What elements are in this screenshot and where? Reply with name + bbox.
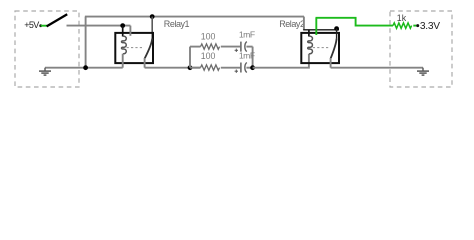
wire vertical ground link x85.6 [85,17,87,68]
svg-text:1k: 1k [397,13,407,23]
wire relay1 coil top stub [122,26,124,37]
svg-text:100: 100 [201,31,216,41]
relay1 box [115,33,153,63]
wire R3 to 3.3V terminal [413,25,416,27]
+3.3V rail terminal dot [416,24,419,27]
+5V rail terminal dot [39,24,42,27]
svg-text:Relay2: Relay2 [279,19,305,29]
junction top rail / relay1 common [150,14,155,19]
junction node L [188,65,193,70]
relay2 switch blade [331,39,337,59]
junction node rail / relay1 coil [120,23,125,28]
dashed subcircuit box right [390,11,452,87]
svg-text:1mF: 1mF [239,51,255,61]
wire relay2 common drop [336,29,338,39]
wire +5V green stub [41,25,47,27]
wire relay1 throw to node L [145,67,201,69]
wire relay1 top throw stub [129,26,131,36]
wire R2 to C2 [221,67,240,69]
ground left symbol [39,71,51,75]
wire relay2 throw to right ground [331,67,423,69]
wire C1 dropper [252,47,254,68]
ground right symbol [417,71,429,75]
wire node L to R2 [190,67,201,69]
relay2 coil L2 [308,36,313,54]
wire R1 left lead [190,46,201,48]
svg-text:+5V: +5V [24,20,39,30]
wire switch to relay1 node rail [67,25,131,27]
wire top rail drop to relay2 [303,17,305,30]
wire relay1 coil bottom stub [122,54,124,68]
ground right stub [422,68,424,71]
wire ground rail left [45,67,123,69]
wire node R to relay2 coil [253,54,309,68]
resistor R3 1k [393,23,412,28]
wire C1 right lead [246,46,252,48]
wire R1 to C1 [221,46,240,48]
svg-text:1mF: 1mF [239,30,255,40]
wire C2 to node R [246,67,252,69]
ground left stub [44,68,46,71]
junction ground rail / vertical link [83,65,88,70]
wire top rail [85,16,304,18]
C2 polarity plus [235,70,238,73]
wire relay1 bottom throw stub [144,58,146,68]
resistor R2 100 [201,65,220,70]
relay1 coupling dashed link [127,47,143,49]
capacitor C1 1mF [241,42,247,52]
wire relay2 bottom throw stub [330,58,332,68]
wire relay2 coil top stub [308,30,310,37]
C1 polarity plus [235,49,238,52]
wire relay2 green top throw stub [315,18,317,35]
svg-text:100: 100 [201,51,216,61]
svg-text:Relay1: Relay1 [164,19,190,29]
dashed subcircuit box left [15,11,79,87]
wire node L riser [189,47,191,68]
wire relay2 top link [303,29,339,31]
wire green 3.3V feed [316,18,394,26]
junction node R [250,65,255,70]
relay1 coil L1 [122,36,127,54]
switch S1 blade (open) [47,14,68,26]
capacitor C2 1mF [241,63,247,73]
junction relay2 common [334,26,339,31]
relay2 coupling dashed link [313,47,329,49]
wire relay1 common drop [151,17,153,39]
svg-text:3.3V: 3.3V [420,21,440,32]
relay2 box [301,33,339,63]
relay1 switch blade [145,39,153,59]
resistor R1 100 [201,44,220,49]
